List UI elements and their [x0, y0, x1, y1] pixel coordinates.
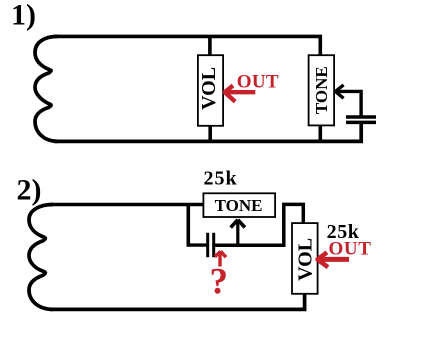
- svg-text:?: ?: [210, 262, 229, 303]
- svg-text:1): 1): [11, 0, 36, 32]
- svg-text:OUT: OUT: [237, 72, 279, 93]
- svg-text:2): 2): [17, 173, 42, 206]
- svg-text:25k: 25k: [204, 168, 238, 190]
- svg-text:25k: 25k: [327, 221, 360, 243]
- svg-text:TONE: TONE: [312, 66, 331, 114]
- svg-text:TONE: TONE: [215, 196, 263, 215]
- svg-text:VOL: VOL: [198, 67, 220, 110]
- svg-text:VOL: VOL: [294, 238, 316, 281]
